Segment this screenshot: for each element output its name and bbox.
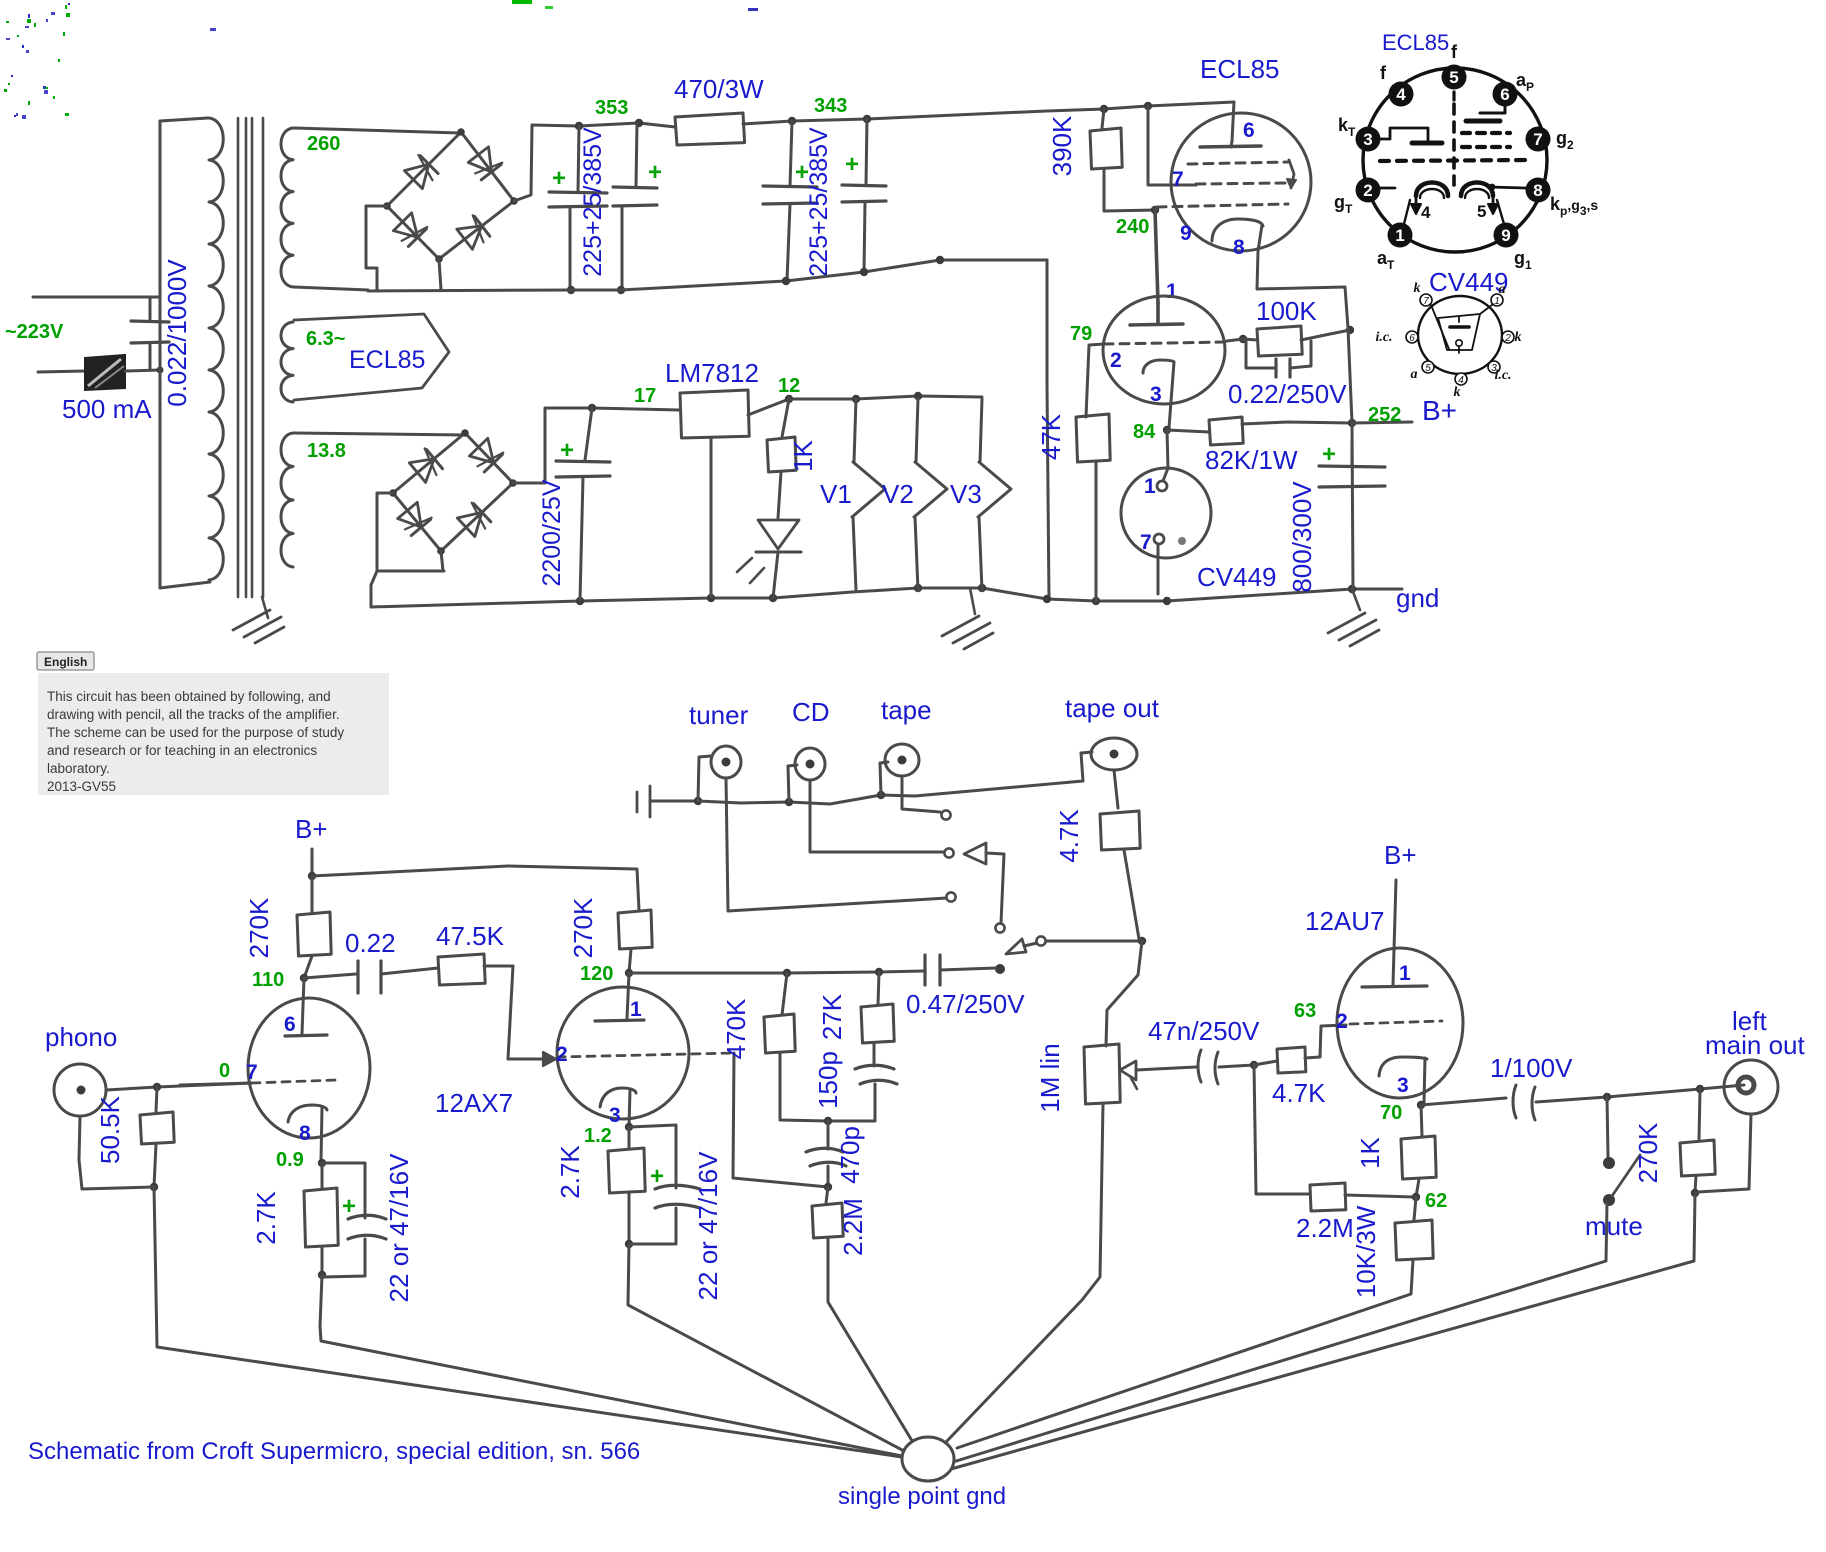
- svg-text:1: 1: [1166, 280, 1178, 303]
- svg-text:V3: V3: [950, 479, 982, 509]
- svg-text:B+: B+: [1384, 840, 1417, 870]
- svg-text:English: English: [44, 655, 87, 669]
- svg-text:tape: tape: [881, 695, 932, 725]
- svg-text:3: 3: [1150, 383, 1162, 406]
- svg-text:470p: 470p: [835, 1126, 865, 1184]
- svg-text:12AX7: 12AX7: [435, 1088, 513, 1118]
- svg-text:ECL85: ECL85: [349, 346, 425, 374]
- svg-text:5: 5: [1477, 202, 1486, 221]
- svg-text:13.8: 13.8: [307, 440, 346, 462]
- svg-text:6: 6: [1243, 119, 1255, 142]
- svg-text:2.7K: 2.7K: [555, 1145, 585, 1199]
- svg-text:B+: B+: [1422, 395, 1457, 426]
- svg-text:2: 2: [1110, 349, 1122, 372]
- svg-text:main out: main out: [1705, 1030, 1805, 1060]
- svg-text:4: 4: [1396, 85, 1406, 104]
- svg-text:i.c.: i.c.: [1375, 330, 1392, 345]
- svg-text:5: 5: [1425, 363, 1431, 374]
- svg-text:2013-GV55: 2013-GV55: [47, 779, 116, 794]
- svg-text:2.2M: 2.2M: [1296, 1213, 1354, 1243]
- svg-text:B+: B+: [295, 814, 328, 844]
- svg-text:1: 1: [1144, 475, 1156, 498]
- svg-text:0: 0: [219, 1060, 230, 1082]
- svg-text:47K: 47K: [1036, 413, 1066, 460]
- svg-text:7: 7: [246, 1061, 258, 1084]
- svg-text:270K: 270K: [1633, 1122, 1663, 1183]
- svg-text:9: 9: [1501, 226, 1510, 245]
- svg-text:k: k: [1515, 330, 1522, 345]
- svg-text:70: 70: [1380, 1102, 1402, 1124]
- svg-text:2.7K: 2.7K: [251, 1191, 281, 1245]
- svg-text:0.47/250V: 0.47/250V: [906, 989, 1025, 1019]
- svg-text:8: 8: [1233, 236, 1245, 259]
- svg-text:10K/3W: 10K/3W: [1351, 1205, 1381, 1298]
- svg-text:47n/250V: 47n/250V: [1148, 1016, 1260, 1046]
- svg-text:V2: V2: [882, 479, 914, 509]
- svg-text:12AU7: 12AU7: [1305, 906, 1385, 936]
- svg-text:470/3W: 470/3W: [674, 74, 764, 104]
- svg-text:1: 1: [630, 998, 642, 1021]
- svg-text:270K: 270K: [568, 897, 598, 958]
- svg-text:470K: 470K: [721, 998, 751, 1059]
- svg-text:1: 1: [1399, 962, 1411, 985]
- svg-text:single point gnd: single point gnd: [838, 1483, 1006, 1510]
- svg-text:+: +: [560, 437, 574, 464]
- svg-text:120: 120: [580, 963, 613, 985]
- svg-text:3: 3: [609, 1104, 621, 1127]
- svg-text:6: 6: [1409, 333, 1415, 344]
- svg-text:82K/1W: 82K/1W: [1205, 445, 1298, 475]
- svg-text:50.5K: 50.5K: [95, 1095, 125, 1164]
- svg-text:drawing with pencil, all the t: drawing with pencil, all the tracks of t…: [47, 707, 340, 722]
- svg-text:gnd: gnd: [1396, 583, 1439, 613]
- svg-text:a: a: [1411, 367, 1418, 382]
- svg-text:47.5K: 47.5K: [436, 921, 505, 951]
- svg-text:800/300V: 800/300V: [1287, 481, 1317, 593]
- svg-text:343: 343: [814, 95, 847, 117]
- svg-text:7: 7: [1423, 296, 1429, 307]
- svg-text:and research or for teaching i: and research or for teaching in an elect…: [47, 743, 317, 758]
- svg-text:240: 240: [1116, 216, 1149, 238]
- svg-text:+: +: [650, 1163, 664, 1190]
- svg-text:84: 84: [1133, 421, 1156, 443]
- svg-text:63: 63: [1294, 1000, 1316, 1022]
- svg-text:CD: CD: [792, 697, 830, 727]
- svg-text:7: 7: [1533, 130, 1542, 149]
- svg-text:The scheme can be used for the: The scheme can be used for the purpose o…: [47, 725, 344, 740]
- svg-text:2.2M: 2.2M: [838, 1198, 868, 1256]
- svg-text:phono: phono: [45, 1022, 117, 1052]
- svg-text:tape out: tape out: [1065, 693, 1160, 723]
- svg-text:0.9: 0.9: [276, 1149, 304, 1171]
- svg-text:+: +: [1322, 441, 1336, 468]
- svg-text:110: 110: [252, 969, 284, 991]
- svg-text:1.2: 1.2: [584, 1125, 612, 1147]
- svg-text:8: 8: [1533, 181, 1542, 200]
- svg-text:9: 9: [1180, 222, 1192, 245]
- svg-text:f: f: [1380, 63, 1387, 83]
- svg-text:Schematic from Croft Supermicr: Schematic from Croft Supermicro, special…: [28, 1438, 640, 1465]
- svg-text:V1: V1: [820, 479, 852, 509]
- svg-text:252: 252: [1368, 404, 1401, 426]
- svg-text:225+25/385V: 225+25/385V: [805, 127, 833, 277]
- svg-text:ECL85: ECL85: [1382, 30, 1449, 55]
- svg-text:390K: 390K: [1047, 115, 1077, 176]
- svg-text:6: 6: [284, 1013, 296, 1036]
- svg-text:12: 12: [778, 375, 800, 397]
- svg-text:270K: 270K: [244, 897, 274, 958]
- svg-text:6: 6: [1500, 85, 1509, 104]
- svg-text:353: 353: [595, 97, 628, 119]
- svg-text:5: 5: [1449, 68, 1458, 87]
- svg-text:LM7812: LM7812: [665, 358, 759, 388]
- svg-text:1K: 1K: [788, 439, 818, 471]
- svg-text:0.022/1000V: 0.022/1000V: [162, 259, 192, 407]
- svg-text:100K: 100K: [1256, 296, 1317, 326]
- svg-text:+: +: [342, 1193, 356, 1220]
- svg-text:4: 4: [1421, 203, 1431, 222]
- svg-text:17: 17: [634, 385, 656, 407]
- svg-text:k: k: [1454, 385, 1461, 400]
- svg-text:2: 2: [556, 1043, 568, 1066]
- svg-text:This circuit has been obtained: This circuit has been obtained by follow…: [47, 689, 331, 704]
- svg-text:2: 2: [1363, 181, 1372, 200]
- svg-text:79: 79: [1070, 323, 1092, 345]
- svg-text:+: +: [648, 159, 662, 186]
- svg-text:4.7K: 4.7K: [1054, 809, 1084, 863]
- svg-text:0.22: 0.22: [345, 928, 396, 958]
- svg-text:22 or 47/16V: 22 or 47/16V: [384, 1153, 414, 1303]
- svg-text:f: f: [1451, 42, 1458, 62]
- svg-text:0.22/250V: 0.22/250V: [1228, 379, 1347, 409]
- svg-text:~223V: ~223V: [5, 321, 64, 343]
- svg-text:2200/25V: 2200/25V: [538, 479, 566, 586]
- svg-text:7: 7: [1140, 531, 1152, 554]
- svg-text:27K: 27K: [817, 993, 847, 1040]
- svg-text:1/100V: 1/100V: [1490, 1053, 1573, 1083]
- svg-text:500 mA: 500 mA: [62, 394, 152, 424]
- svg-text:260: 260: [307, 133, 340, 155]
- svg-text:150p: 150p: [813, 1051, 843, 1109]
- svg-text:8: 8: [299, 1122, 311, 1145]
- svg-text:k: k: [1414, 281, 1421, 296]
- svg-text:6.3~: 6.3~: [306, 328, 345, 350]
- svg-text:3: 3: [1397, 1074, 1409, 1097]
- svg-text:62: 62: [1425, 1190, 1447, 1212]
- svg-text:1K: 1K: [1355, 1136, 1385, 1168]
- svg-text:4.7K: 4.7K: [1272, 1078, 1326, 1108]
- svg-text:2: 2: [1336, 1010, 1348, 1033]
- svg-text:a: a: [1499, 282, 1506, 297]
- svg-text:tuner: tuner: [689, 700, 749, 730]
- svg-text:1: 1: [1494, 296, 1500, 307]
- svg-text:laboratory.: laboratory.: [47, 761, 110, 776]
- svg-text:1: 1: [1395, 226, 1404, 245]
- svg-text:mute: mute: [1585, 1211, 1643, 1241]
- svg-text:225+25/385V: 225+25/385V: [579, 127, 607, 277]
- svg-text:+: +: [845, 151, 859, 178]
- svg-text:22 or 47/16V: 22 or 47/16V: [693, 1151, 723, 1301]
- svg-text:CV449: CV449: [1429, 267, 1509, 297]
- svg-text:i.c.: i.c.: [1494, 368, 1511, 383]
- svg-text:7: 7: [1172, 168, 1184, 191]
- svg-text:3: 3: [1363, 130, 1372, 149]
- svg-text:1M lin: 1M lin: [1035, 1043, 1065, 1112]
- svg-text:CV449: CV449: [1197, 562, 1277, 592]
- svg-text:2: 2: [1504, 333, 1511, 344]
- svg-text:+: +: [552, 165, 566, 192]
- svg-text:ECL85: ECL85: [1200, 54, 1280, 84]
